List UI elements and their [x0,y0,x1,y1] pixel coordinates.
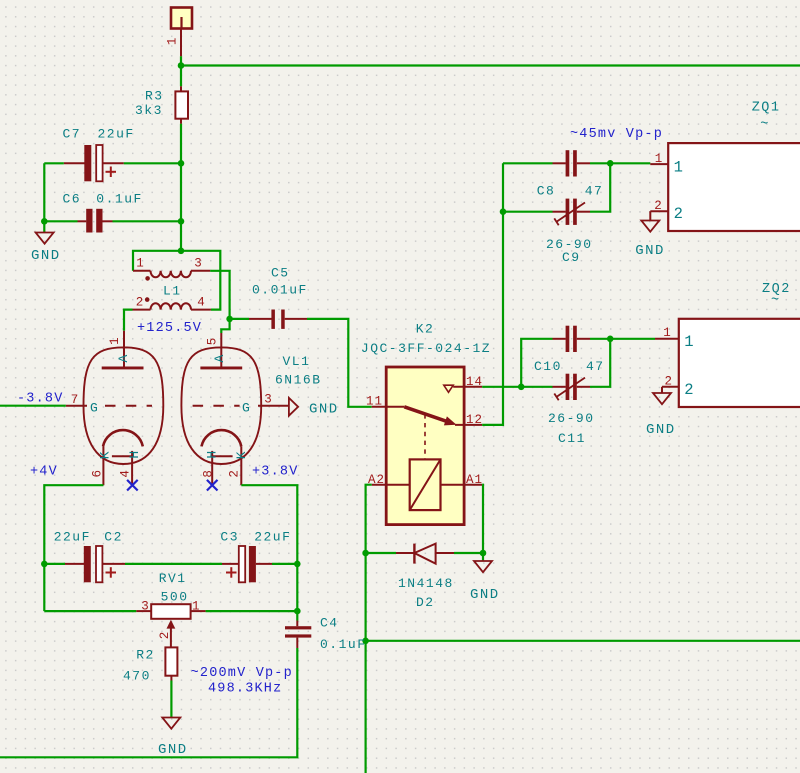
wire grid input [0,405,66,407]
wire bottom rail to right edge [366,640,800,642]
relay K2 JQC-3FF-024-1Z [361,322,491,525]
svg-text:D2: D2 [416,595,435,610]
wire D2 right [454,552,483,554]
no-connect X on V2 pin 8 [207,480,218,491]
svg-text:~45mv Vp-p: ~45mv Vp-p [570,127,663,142]
wire RV1 right [206,610,298,612]
svg-text:R3: R3 [145,89,164,104]
svg-text:1: 1 [663,326,672,340]
capacitor C8 47 [537,150,604,198]
svg-text:2: 2 [674,205,685,223]
svg-text:4: 4 [118,469,132,478]
junction C11 left [518,384,525,391]
svg-text:26-90: 26-90 [548,411,595,426]
wire R2 to ground [170,681,172,718]
svg-text:4: 4 [197,296,206,310]
ground symbol near D2 [470,553,500,603]
svg-text:3: 3 [194,257,203,271]
svg-text:3k3: 3k3 [135,103,163,118]
wire relay A1 down [481,485,484,553]
svg-text:A1: A1 [466,473,483,487]
svg-text:C5: C5 [271,266,290,281]
wire C2-C3 middle [125,563,222,565]
svg-text:1N4148: 1N4148 [398,576,454,591]
diode D2 1N4148 [396,544,454,610]
svg-text:RV1: RV1 [159,571,187,586]
trimmer capacitor C11 26-90 [548,374,595,446]
svg-text:GND: GND [31,248,61,264]
svg-text:~: ~ [771,294,781,309]
svg-text:2: 2 [665,375,674,389]
wire C10/C11 left bracket [521,339,552,387]
svg-text:C2: C2 [104,530,123,545]
svg-text:~200mV Vp-p: ~200mV Vp-p [191,666,293,681]
svg-text:C8: C8 [537,184,556,199]
svg-text:+3.8V: +3.8V [252,465,299,480]
wire C5 to relay pin 11 [307,319,372,407]
svg-text:-3.8V: -3.8V [17,392,64,407]
svg-text:G: G [90,401,99,416]
junction D2 left [362,550,369,557]
wire C7 right [124,162,181,164]
label -3.8V [17,392,64,407]
svg-text:498.3KHz: 498.3KHz [208,682,282,697]
wire relay A2 down [366,485,372,553]
svg-text:H: H [127,449,142,458]
capacitor C10 47 [534,326,605,374]
svg-text:1: 1 [136,257,145,271]
wire C10 right [590,338,655,340]
svg-text:0.1uF: 0.1uF [96,192,143,207]
wire D2 left [366,552,396,554]
capacitor C7 22uF [63,127,135,182]
svg-text:6N16B: 6N16B [275,373,322,388]
label +4V [30,465,58,480]
junction R3/C6 [178,218,185,225]
wire C6 left [44,220,77,222]
connector P1 [165,8,192,46]
svg-text:8: 8 [202,469,216,478]
triode VL1 unit B [181,333,289,485]
svg-text:2: 2 [228,469,242,478]
svg-text:C3: C3 [220,530,239,545]
wire C6 right [113,220,182,222]
svg-text:G: G [242,401,251,416]
svg-text:K2: K2 [416,322,435,337]
ground symbol near C6 [31,233,61,265]
svg-text:JQC-3FF-024-1Z: JQC-3FF-024-1Z [361,341,491,356]
svg-text:K: K [97,450,112,459]
capacitor C4 0.1uF [285,616,367,653]
svg-text:R2: R2 [136,648,155,663]
junction C2 left [41,561,48,568]
svg-text:K: K [234,450,249,459]
svg-text:6: 6 [90,469,104,478]
svg-text:1: 1 [674,159,685,177]
wire V1 cathode to C2 [44,485,103,611]
svg-text:47: 47 [586,359,605,374]
capacitor C3 22uF [220,530,291,583]
wire RV1 left [44,610,136,612]
svg-text:11: 11 [366,395,383,409]
wire A2 branch down to bottom rail [365,553,367,773]
junction C8 right [607,160,614,167]
wire left branch C7-C6-GND [43,163,45,232]
wire top horizontal to right edge [181,64,800,66]
junction at top node [178,62,185,69]
resistor R2 470 [123,647,177,683]
junction RV1 right [294,608,301,615]
svg-text:3: 3 [141,600,150,614]
label ~200mV Vp-p 498.3KHz [191,666,293,697]
wire C2 left [44,563,65,565]
junction C3 right [294,561,301,568]
svg-text:1: 1 [165,37,179,46]
svg-text:0.1uF: 0.1uF [320,637,367,652]
junction C9 left [500,208,507,215]
svg-text:~: ~ [760,118,770,133]
capacitor C5 0.01uF [249,266,308,329]
svg-text:2: 2 [684,381,695,399]
svg-text:7: 7 [71,393,80,407]
junction bottom rail [362,638,369,645]
svg-text:22uF: 22uF [254,530,291,545]
wire L1 pin3 to C5 node [210,271,229,319]
capacitor C6 0.1uF [63,192,143,233]
svg-text:H: H [204,449,219,458]
svg-text:GND: GND [470,587,500,603]
wire C7 left [44,162,64,164]
ground symbol below R2 [158,718,188,759]
pin 1 lead of P1 [180,29,182,57]
svg-text:GND: GND [158,742,188,758]
svg-text:1: 1 [655,152,664,166]
svg-text:3: 3 [264,393,273,407]
svg-text:1: 1 [192,600,201,614]
svg-text:C4: C4 [320,616,339,631]
svg-text:C11: C11 [558,431,586,446]
svg-text:C9: C9 [562,250,581,265]
crystal ZQ2 [655,282,800,407]
no-connect X on V1 pin 4 [127,480,138,491]
svg-text:12: 12 [466,413,483,427]
wire R3 to L1 [180,124,182,251]
global label GND at V2 grid [289,398,339,418]
wire relay pin 12 up to C8/C9 [482,163,503,425]
wire V2 cathode to C3 [241,485,297,611]
svg-text:A: A [116,353,131,362]
potentiometer RV1 500 [136,571,205,648]
crystal ZQ1 [650,101,800,232]
triode VL1 unit A [66,331,164,485]
svg-text:GND: GND [635,243,665,259]
wire C3 right [272,563,297,565]
label ~45mv Vp-p [570,127,663,142]
svg-text:A: A [212,353,227,362]
svg-text:2: 2 [654,199,663,213]
junction R3/C7 [178,160,185,167]
wire C11 right bracket [590,339,610,387]
svg-text:L1: L1 [163,284,182,299]
wire C5 node to V2 anode [221,319,229,333]
svg-text:1: 1 [684,333,695,351]
capacitor C2 22uF [54,530,125,583]
wire C8 right [590,162,650,164]
wire V+ node vertical [180,56,182,86]
svg-text:C7: C7 [63,127,82,142]
junction C5 node [226,316,233,323]
svg-text:VL1: VL1 [283,354,311,369]
value VL1 6N16B [275,354,322,388]
svg-text:5: 5 [205,337,219,346]
ground symbol at ZQ1 pin 2 [635,221,665,260]
wire C4 top [296,611,298,620]
transformer L1 [133,257,211,310]
wire L1 top loop [133,251,220,310]
label +3.8V [252,465,299,480]
svg-text:C10: C10 [534,359,562,374]
svg-text:2: 2 [136,296,145,310]
wire C4 bottom to left rail [0,648,297,757]
resistor R3 3k3 [135,86,188,124]
svg-text:0.01uF: 0.01uF [252,283,308,298]
svg-text:C6: C6 [63,192,82,207]
junction C10 right [607,336,614,343]
svg-text:500: 500 [161,590,189,605]
svg-text:470: 470 [123,668,151,683]
junction at L1 top [178,248,185,255]
svg-text:GND: GND [309,402,339,418]
svg-text:47: 47 [585,184,604,199]
trimmer capacitor C9 26-90 [546,199,593,265]
wire C9 right bracket [590,163,610,211]
wire C8/C9 left bracket [503,163,553,211]
svg-text:22uF: 22uF [98,127,135,142]
label +125.5V [137,321,202,336]
svg-text:2: 2 [158,631,172,640]
svg-text:22uF: 22uF [54,530,91,545]
svg-text:GND: GND [646,422,676,438]
wire C5 left [230,318,249,320]
wire L1 pin2 to V1 anode [124,310,133,331]
junction D2 right [480,550,487,557]
wire relay pin 14 to C10/C11 [482,386,521,388]
svg-text:ZQ1: ZQ1 [752,101,781,116]
svg-text:+125.5V: +125.5V [137,321,202,336]
ground symbol at ZQ2 pin 2 [646,393,676,438]
svg-text:1: 1 [108,336,122,345]
svg-text:+4V: +4V [30,465,58,480]
junction C6 left [41,218,48,225]
svg-text:14: 14 [466,375,483,389]
